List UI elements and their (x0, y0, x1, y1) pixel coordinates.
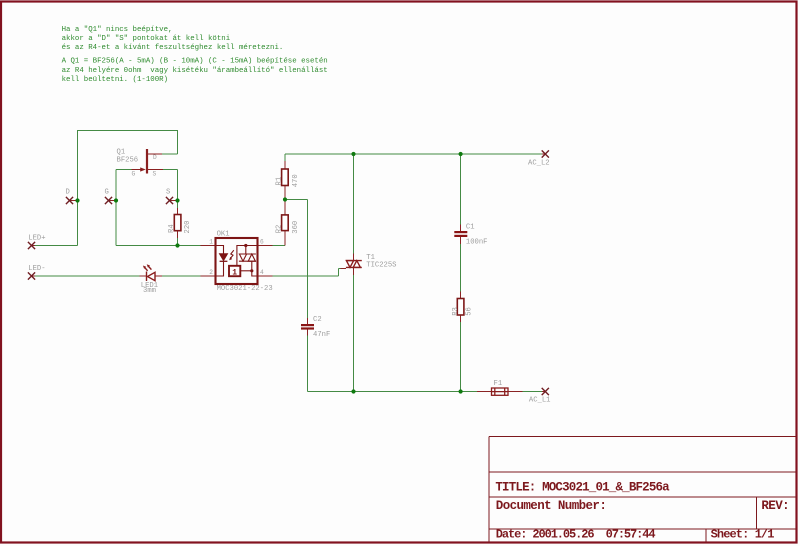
resistor R2 (282, 215, 289, 231)
OK1 pin2 internal (216, 261, 224, 276)
title block (489, 437, 797, 543)
svg-text:D: D (153, 154, 157, 161)
svg-text:S: S (153, 170, 157, 177)
pin stub R4 bottom (177, 231, 179, 238)
junction at point D (75, 198, 79, 202)
point AC_L1 X (542, 388, 549, 395)
junction bottom T1 (351, 389, 355, 393)
svg-text:470: 470 (292, 174, 300, 187)
svg-text:1: 1 (232, 268, 237, 277)
junction bottom R3 (459, 389, 463, 393)
svg-text:56: 56 (466, 307, 474, 316)
pin stub T1 top (353, 254, 355, 261)
pin stub point S (170, 200, 178, 202)
wire gate step vertical (338, 269, 340, 277)
wire left vertical (77, 131, 79, 246)
wire gate step horizontal (339, 268, 341, 270)
Q1 drain pin (148, 153, 162, 155)
pin stub R3 bottom (460, 315, 462, 322)
svg-text:T1: T1 (366, 254, 375, 262)
svg-text:Document Number:: Document Number: (496, 499, 606, 513)
OK1 pin1 internal (216, 246, 224, 254)
pin stub C1 bottom (460, 237, 462, 244)
pin stub C2 bottom (307, 330, 309, 336)
LED1 emission arrows (145, 267, 148, 270)
resistor R4 (174, 215, 181, 231)
svg-text:100nF: 100nF (466, 239, 488, 247)
Q1 source pin (148, 169, 163, 171)
note text (62, 26, 328, 84)
svg-text:és az R4-et a kívánt feszultsé: és az R4-et a kívánt feszultséghez kell … (62, 44, 284, 52)
pin stub T1 gate (341, 268, 347, 270)
pin stub R3 top (460, 292, 462, 299)
transistor Q1 BF256 (132, 149, 164, 174)
svg-text:3mm: 3mm (143, 287, 156, 295)
svg-text:OK1: OK1 (217, 230, 230, 238)
pin stub LED1 right (155, 275, 162, 277)
wire OK1 pin4 to gate step (273, 275, 339, 277)
wire LED+ horizontal (35, 245, 78, 247)
svg-text:C2: C2 (313, 316, 322, 324)
wire gate vertical (115, 170, 117, 246)
OK1 light arrow (230, 250, 233, 258)
wire OK1 pin6 to R2 (273, 245, 286, 247)
svg-text:akkor a "D" "S" pontokat át ke: akkor a "D" "S" pontokat át kell kötni (62, 35, 231, 43)
svg-text:S: S (166, 188, 170, 196)
point G X (105, 197, 112, 204)
wire gate horizontal green part (116, 169, 132, 171)
svg-text:A Q1 = BF256(A - 5mA) (B - 10m: A Q1 = BF256(A - 5mA) (B - 10mA) (C - 15… (62, 58, 328, 66)
wire drain horizontal green part (162, 153, 178, 155)
pin stub T1 bottom (353, 267, 355, 275)
pin stub R1 bottom (284, 186, 286, 200)
point LED+ X (28, 242, 35, 249)
pin stub OK1 pin4 (258, 275, 273, 277)
svg-text:R3: R3 (452, 307, 460, 316)
pin stub C1 top (460, 225, 462, 232)
pin stub LED1 left (140, 275, 147, 277)
svg-text:F1: F1 (494, 380, 503, 388)
wire R1 top to rail (284, 154, 286, 161)
gray labels (28, 149, 550, 405)
title block text (495, 481, 789, 542)
wire R4 bottom to junction (177, 238, 179, 246)
wire bottom rail (308, 391, 478, 393)
pin stub OK1 pin6 (258, 245, 273, 247)
pin stub OK1 pin1 (201, 245, 216, 247)
svg-text:G: G (132, 170, 136, 177)
wire LED1 to OK1 pin2 (162, 275, 201, 277)
OK1 box (216, 238, 258, 284)
svg-text:Q1: Q1 (117, 149, 126, 157)
wire node vertical to C2 (307, 200, 309, 319)
wire gate bottom horizontal (116, 245, 178, 247)
junction rail T1 (351, 152, 355, 156)
capacitor C1 (454, 231, 467, 237)
OK1 pin6 internal (237, 246, 258, 266)
wire source vertical to S point (177, 170, 179, 201)
wire C2 bottom vertical (307, 335, 309, 391)
svg-text:4: 4 (260, 269, 264, 276)
OK1 pin4 internal (252, 261, 258, 276)
point AC_L2 X (542, 150, 549, 157)
fuse F1 (492, 388, 509, 395)
junction R4/pin1 (175, 243, 179, 247)
svg-text:Date: 2001.05.26 07:57:44: Date: 2001.05.26 07:57:44 (496, 528, 656, 542)
pin stub R2 bottom (284, 231, 286, 246)
svg-text:LED-: LED- (28, 265, 45, 273)
resistor R3 (457, 299, 464, 316)
svg-text:220: 220 (184, 221, 192, 234)
pin stub point G (109, 200, 117, 202)
wire S point to R4 (177, 201, 179, 209)
svg-text:R1: R1 (275, 177, 283, 186)
wire drain vertical (177, 131, 179, 155)
Q1 gate pin with arrow (132, 169, 142, 171)
svg-text:2: 2 (209, 269, 213, 276)
point S X (166, 197, 173, 204)
svg-text:TIC225S: TIC225S (366, 262, 396, 270)
pin stub C2 top (307, 318, 309, 324)
junction rail C1 (459, 152, 463, 156)
pin stub OK1 pin2 (201, 275, 216, 277)
wire T1 bottom vertical (353, 275, 355, 392)
svg-text:R2: R2 (275, 225, 283, 234)
wire top rail (285, 153, 542, 155)
wire R3 bottom vertical (460, 322, 462, 392)
LED1 (143, 264, 155, 281)
pin stub F1 left (477, 391, 492, 393)
wire fuse to AC_L1 (523, 391, 542, 393)
triac T1 TIC225S (346, 261, 362, 268)
pin stub AC_L2 (542, 153, 546, 155)
wire C1 top vertical (460, 154, 462, 225)
junction at point S (175, 198, 179, 202)
wire LED- horizontal left (35, 275, 140, 277)
wire R1R2 node horizontal (285, 199, 308, 201)
svg-text:6: 6 (260, 239, 264, 246)
pin stub R2 top (284, 200, 286, 216)
svg-text:AC_L2: AC_L2 (528, 159, 550, 167)
svg-text:REV:: REV: (761, 499, 789, 513)
svg-text:D: D (66, 188, 70, 196)
wires (green nets) (35, 131, 542, 392)
svg-text:R4: R4 (168, 224, 176, 233)
pin stub AC_L1 (542, 391, 546, 393)
wire T1 top vertical (353, 154, 355, 254)
svg-text:MOC3021-22-23: MOC3021-22-23 (217, 285, 273, 293)
optocoupler OK1 MOC3021 (216, 238, 258, 284)
svg-text:az R4 helyére 0ohm vagy kisét: az R4 helyére 0ohm vagy kisétéku "árambe… (62, 67, 328, 75)
pin stub F1 right (508, 391, 523, 393)
svg-text:AC_L1: AC_L1 (529, 396, 551, 404)
junction dots (75, 152, 462, 394)
junction at point G (114, 198, 118, 202)
wire source horizontal green part (163, 169, 178, 171)
pin stub R4 top (177, 208, 179, 215)
pin stubs (dark red) (32, 154, 546, 392)
LED1 triangle (148, 272, 156, 280)
point LED- X (28, 272, 35, 279)
svg-text:kell beültetni. (1-100R): kell beültetni. (1-100R) (62, 76, 168, 84)
wire C1 to R3 vertical (460, 244, 462, 292)
OK1 internal triac (239, 253, 256, 255)
X test point marks (28, 150, 549, 395)
svg-text:47nF: 47nF (313, 331, 330, 339)
pin stub LED- (32, 275, 36, 277)
OK1 trigger box (229, 266, 240, 276)
point D X (66, 197, 73, 204)
svg-text:TITLE: MOC3021_01_&_BF256a: TITLE: MOC3021_01_&_BF256a (495, 481, 670, 495)
wire junction to OK1 pin1 (178, 245, 201, 247)
LED1 cathode bar (146, 272, 148, 282)
pin stub point D (70, 200, 78, 202)
svg-text:G: G (105, 188, 109, 196)
svg-text:1: 1 (209, 239, 213, 246)
svg-text:BF256: BF256 (117, 157, 139, 165)
wire top-left horizontal (77, 130, 178, 132)
svg-text:C1: C1 (466, 224, 475, 232)
pin stub R1 top (284, 161, 286, 169)
OK1 internal LED (220, 254, 228, 261)
junction R1/R2 node (283, 197, 287, 201)
svg-text:LED+: LED+ (28, 234, 45, 242)
resistor R1 (282, 169, 289, 186)
capacitor C2 (301, 324, 314, 330)
Q1 channel bar (146, 149, 148, 174)
svg-text:360: 360 (292, 221, 300, 234)
svg-text:Ha a "Q1" nincs beépítve,: Ha a "Q1" nincs beépítve, (62, 26, 173, 34)
svg-text:Sheet: 1/1: Sheet: 1/1 (711, 528, 775, 542)
pin stub LED+ (32, 245, 36, 247)
